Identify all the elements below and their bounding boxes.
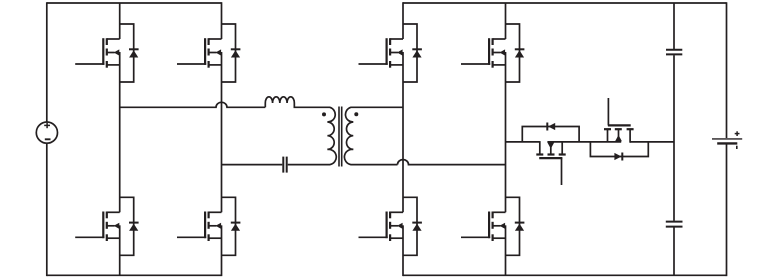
wire output capacitor rail middle — [673, 55, 675, 221]
transistor S1 aux left — [536, 141, 565, 185]
wire leg1 middle segment — [119, 52, 121, 212]
wire output capacitor rail lower — [673, 228, 675, 276]
wire leg4 drain segment — [505, 3, 507, 39]
wire left rail lower — [46, 143, 48, 276]
battery B1 — [712, 131, 742, 149]
wire aux branch drain side segment — [506, 141, 540, 143]
diode D10 aux right — [590, 142, 648, 161]
transistor S2 aux right — [604, 98, 634, 143]
transistor Q8 — [461, 212, 506, 242]
transistor Q5 — [359, 38, 404, 67]
transistor Q4 — [177, 212, 222, 242]
wire bottom rail right bridge — [403, 274, 727, 276]
wire leg2 midpoint to capacitor — [222, 164, 283, 166]
wire leg1 midpoint to inductor with hop over leg2 — [120, 102, 266, 107]
wire secondary bottom to leg4 with hop over leg3 — [398, 160, 506, 165]
diode D3 — [222, 24, 241, 82]
diode D5 — [403, 24, 422, 82]
transistor Q7 — [461, 38, 506, 67]
wire aux branch common source segment — [547, 141, 621, 143]
wire bottom rail left bridge — [47, 274, 222, 276]
wire leg2 bottom segment — [221, 225, 223, 276]
wire battery rail upper — [726, 2, 728, 138]
diode D7 — [506, 24, 525, 82]
wire top rail left bridge — [47, 2, 222, 4]
capacitor C3 — [666, 222, 683, 227]
wire leg4 bottom segment — [505, 225, 507, 275]
transformer T1 secondary dot — [354, 112, 358, 116]
capacitor C1 — [283, 157, 286, 173]
wire aux branch right drain segment — [630, 141, 674, 143]
diode D4 — [222, 197, 241, 255]
diode D9 aux left — [522, 123, 579, 142]
capacitor C2 — [666, 50, 682, 55]
wire leg3 bottom segment — [402, 225, 404, 276]
transistor Q3 — [177, 38, 222, 67]
diode D6 — [403, 197, 422, 255]
wire leg2 middle segment — [221, 52, 223, 212]
diode D2 — [120, 197, 139, 255]
wire battery rail lower — [726, 145, 728, 277]
wire leg3 middle segment — [402, 52, 404, 212]
diode D1 — [120, 24, 139, 82]
wire leg1 bottom segment — [119, 225, 121, 275]
wire leg4 middle segment — [505, 52, 507, 212]
transformer T1 secondary winding — [344, 107, 403, 164]
wire leg3 drain segment — [402, 2, 404, 39]
wire top rail right bridge — [403, 2, 727, 4]
wire output capacitor rail upper — [673, 3, 675, 49]
wire left rail upper — [46, 2, 48, 122]
wire leg2 drain segment — [221, 2, 223, 39]
transformer T1 primary dot — [322, 112, 326, 116]
transistor Q2 — [75, 212, 120, 242]
transistor Q6 — [359, 212, 404, 242]
transistor Q1 — [75, 38, 120, 67]
wire leg1 drain segment — [119, 3, 121, 39]
inductor L1 — [265, 97, 323, 108]
diode D8 — [506, 197, 525, 255]
transformer T1 core — [339, 107, 342, 167]
voltage source V1 — [36, 122, 57, 143]
transformer T1 primary winding — [288, 107, 337, 164]
